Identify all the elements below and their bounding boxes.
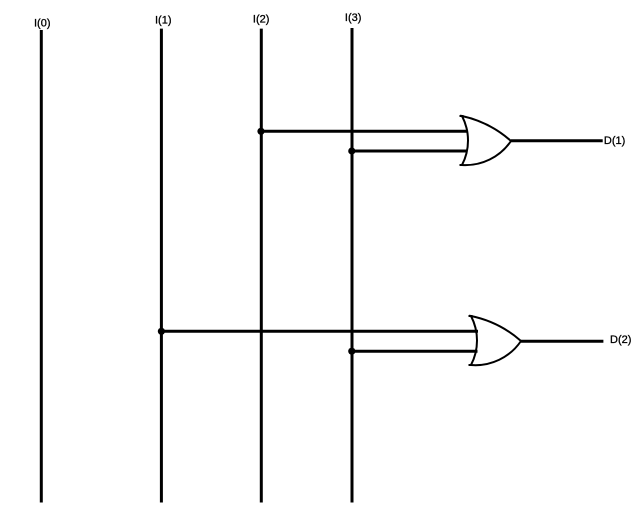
input line I(1) (160, 29, 163, 503)
wire U2 output to D(2) (521, 340, 603, 343)
node junction on I(2) (257, 128, 264, 135)
or-gate U1 (462, 116, 511, 165)
svg-text:I(2): I(2) (253, 13, 270, 25)
wire I(3) to OR gate U2 input B (352, 350, 478, 353)
wire I(2) to OR gate U1 input A (261, 130, 468, 133)
input line I(3) (351, 28, 354, 503)
node junction on I(1) (158, 328, 165, 335)
wire I(1) to OR gate U2 input A (161, 330, 478, 333)
node junction on I(3) lower (348, 348, 355, 355)
svg-text:I(0): I(0) (34, 17, 51, 29)
node junction on I(3) upper (348, 147, 355, 154)
or-gate U2 (471, 316, 521, 365)
wire I(3) to OR gate U1 input B (352, 150, 468, 153)
wire U1 output to D(1) (511, 139, 603, 142)
input line I(2) (260, 29, 263, 503)
svg-text:D(1): D(1) (604, 135, 625, 147)
svg-text:I(3): I(3) (345, 12, 362, 24)
svg-text:I(1): I(1) (155, 14, 172, 26)
svg-text:D(2): D(2) (610, 334, 631, 346)
input line I(0) (40, 30, 43, 503)
